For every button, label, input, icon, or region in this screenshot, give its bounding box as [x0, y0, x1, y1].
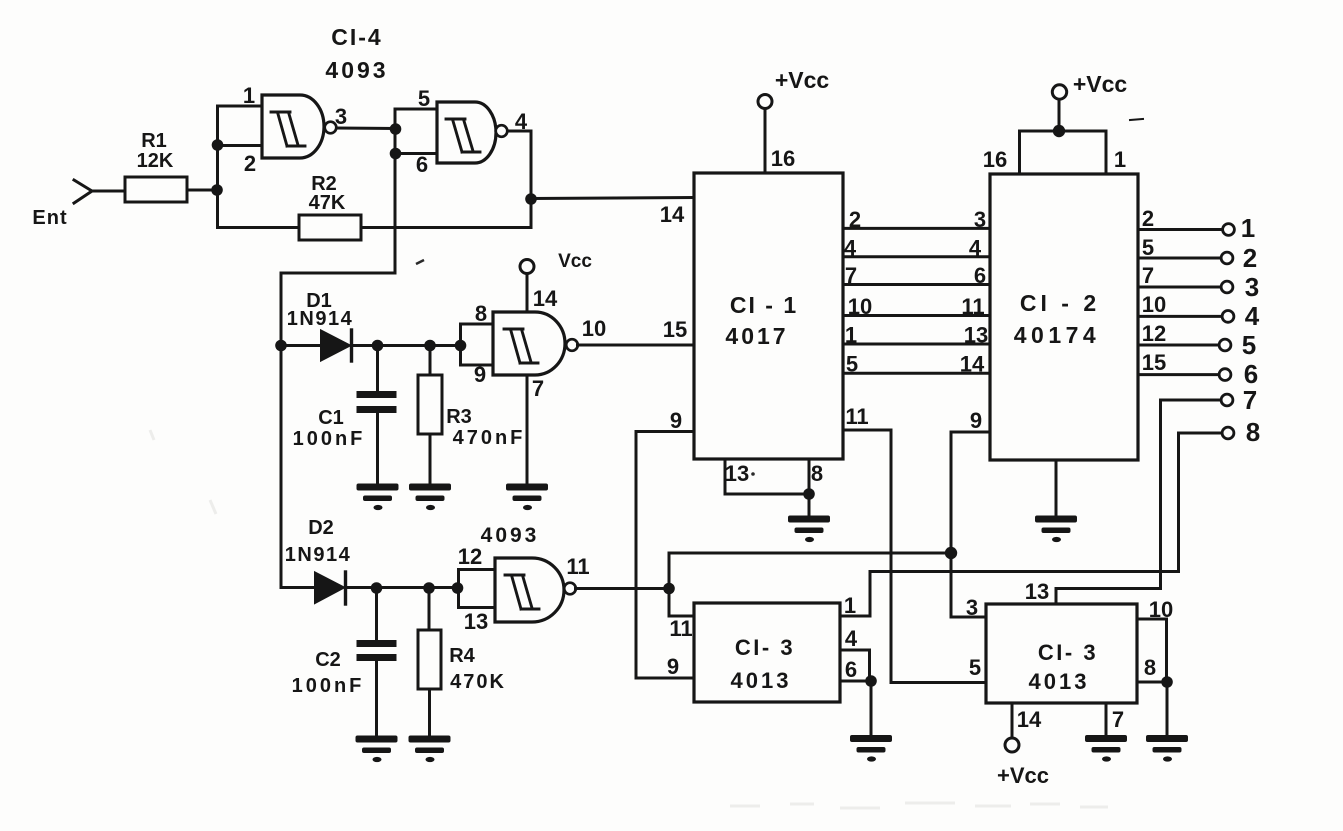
- node junction C1: [372, 340, 384, 352]
- svg-text:1: 1: [1114, 147, 1126, 172]
- svg-text:47K: 47K: [309, 192, 346, 214]
- svg-text:CI-4: CI-4: [331, 24, 382, 50]
- wire CI-2 pin 7 output: [1138, 286, 1221, 289]
- svg-text:4: 4: [845, 626, 858, 651]
- wire: [216, 106, 219, 228]
- wire: [394, 109, 397, 273]
- IC CI-2 40174: [990, 174, 1138, 460]
- wire gate2 output pin 4: [507, 130, 531, 133]
- svg-text:+Vcc: +Vcc: [997, 763, 1049, 788]
- node junction pin5: [390, 123, 402, 135]
- node junction C2: [371, 582, 383, 594]
- svg-text:10: 10: [1149, 597, 1173, 622]
- gate U1C 4093: [493, 312, 565, 375]
- svg-text:3: 3: [1245, 272, 1259, 302]
- svg-text:4: 4: [969, 236, 982, 261]
- svg-text:11: 11: [845, 404, 868, 429]
- svg-text:Ent: Ent: [32, 207, 67, 229]
- wire CI-1 pin 5 to CI-2 pin 14: [843, 372, 990, 375]
- capacitor C1: [376, 346, 379, 392]
- svg-text:3: 3: [974, 207, 986, 232]
- wire: [91, 190, 125, 193]
- wire CI-3a pin 4: [840, 650, 870, 681]
- svg-text:5: 5: [846, 352, 858, 377]
- wire D2 row: [281, 586, 315, 589]
- wire gate4 output pin 11: [576, 587, 670, 590]
- svg-text:2: 2: [849, 207, 861, 232]
- wire net A horizontal: [670, 552, 951, 555]
- wire CI-3a pin 1 to output 8: [840, 433, 1222, 616]
- svg-text:13: 13: [964, 323, 988, 348]
- svg-text:9: 9: [670, 408, 682, 433]
- node junction R3: [424, 340, 436, 352]
- terminal output 6: [1219, 369, 1231, 381]
- node junction gate3 input: [455, 340, 467, 352]
- wire CI-3b pin 8: [1137, 681, 1167, 684]
- wire CI-1 pin 7 to CI-2 pin 6: [843, 283, 990, 286]
- wire pin 8: [461, 323, 494, 326]
- svg-text:8: 8: [1144, 655, 1156, 680]
- wire pin 2: [218, 144, 263, 147]
- wire Vcc stem CI-2: [1058, 100, 1061, 132]
- wire CI-3a pin 6: [840, 680, 871, 683]
- terminal output 5: [1219, 339, 1231, 351]
- wire CI-2 pin 12 output: [1138, 344, 1219, 347]
- node junction pin 13 / pin 8: [803, 488, 815, 500]
- power +Vcc terminal CI-3b pin 14: [1005, 738, 1019, 752]
- resistor R2: [299, 215, 361, 240]
- svg-text:14: 14: [960, 352, 985, 377]
- svg-text:7: 7: [845, 263, 857, 288]
- svg-text:13: 13: [725, 461, 749, 486]
- svg-text:13: 13: [464, 609, 488, 634]
- svg-text:4093: 4093: [481, 524, 540, 547]
- svg-text:1: 1: [845, 323, 857, 348]
- svg-text:+Vcc: +Vcc: [775, 67, 830, 93]
- svg-text:CI - 1: CI - 1: [730, 292, 798, 318]
- wire CI-1 pin 11 to CI-3 pin 5: [843, 430, 986, 683]
- wire Vcc stem CI-1 pin 16: [764, 109, 767, 174]
- wire CI-3b pin 14 stem: [1011, 703, 1014, 738]
- wire Vcc stem: [526, 274, 529, 313]
- svg-text:6: 6: [974, 263, 986, 288]
- node junction Vcc CI-2: [1053, 125, 1065, 137]
- svg-text:1N914: 1N914: [287, 308, 353, 330]
- svg-text:5: 5: [1242, 330, 1256, 360]
- wire: [346, 586, 459, 589]
- power Vcc terminal gate3: [520, 260, 534, 274]
- ground under C1: [357, 484, 399, 511]
- svg-text:11: 11: [961, 294, 984, 319]
- power +Vcc terminal CI-1: [758, 95, 772, 109]
- svg-text:100nF: 100nF: [292, 675, 365, 697]
- IC CI-3 4013 second half: [986, 604, 1137, 703]
- terminal output 7: [1221, 394, 1233, 406]
- wire pin 9: [461, 364, 494, 367]
- wire CI-1 pin 9: [636, 432, 694, 679]
- svg-text:13: 13: [1025, 579, 1049, 604]
- wire CI-1 pin 13 bracket: [725, 459, 809, 494]
- svg-text:CI - 2: CI - 2: [1020, 290, 1100, 316]
- svg-text:1: 1: [1241, 213, 1255, 243]
- wire CI-2 pin 10 output: [1138, 315, 1222, 318]
- svg-text:5: 5: [418, 86, 430, 111]
- svg-text:16: 16: [771, 146, 795, 171]
- svg-text:3: 3: [335, 104, 347, 129]
- svg-text:7: 7: [1142, 263, 1154, 288]
- diode D2 1N914: [315, 573, 344, 604]
- svg-text:8: 8: [475, 301, 487, 326]
- svg-text:8: 8: [811, 461, 823, 486]
- ground CI-2 pin 8: [1035, 516, 1077, 543]
- wire: [352, 344, 461, 347]
- ground gate3 pin 7: [506, 484, 548, 511]
- svg-text:7: 7: [1243, 385, 1257, 415]
- svg-text:6: 6: [416, 152, 428, 177]
- stray dot after 13: [751, 472, 755, 476]
- ground CI-3b pin 8: [1146, 735, 1188, 762]
- ground CI-3b pin 7: [1085, 735, 1127, 762]
- svg-text:R3: R3: [446, 406, 472, 428]
- svg-text:11: 11: [566, 554, 589, 579]
- terminal output 4: [1222, 311, 1234, 323]
- svg-text:10: 10: [582, 316, 606, 341]
- svg-text:+Vcc: +Vcc: [1073, 71, 1128, 97]
- terminal output 2: [1221, 252, 1233, 264]
- node junction R1 output: [211, 184, 223, 196]
- terminal output 8: [1222, 427, 1234, 439]
- svg-text:14: 14: [1017, 707, 1042, 732]
- stray mark: [1130, 119, 1143, 120]
- svg-text:14: 14: [660, 202, 685, 227]
- svg-text:CI- 3: CI- 3: [1038, 640, 1098, 665]
- node junction R4: [423, 582, 435, 594]
- svg-text:4: 4: [515, 109, 528, 134]
- ground CI-3a pin 6: [850, 735, 892, 762]
- svg-text:40174: 40174: [1014, 322, 1100, 348]
- wire CI-1 pin 10 to CI-2 pin 11: [843, 314, 990, 317]
- svg-text:6: 6: [845, 657, 857, 682]
- svg-text:2: 2: [244, 151, 256, 176]
- IC CI-1 4017: [694, 173, 843, 459]
- svg-text:15: 15: [1142, 350, 1166, 375]
- svg-text:5: 5: [1142, 235, 1154, 260]
- capacitor C2: [375, 588, 378, 640]
- svg-text:1: 1: [844, 593, 856, 618]
- svg-text:9: 9: [970, 408, 982, 433]
- svg-text:4093: 4093: [325, 57, 388, 83]
- svg-text:R4: R4: [449, 645, 475, 667]
- node junction gate4 input: [452, 582, 464, 594]
- wire CI-2 pin 15 output: [1138, 373, 1219, 376]
- svg-text:8: 8: [1246, 417, 1260, 447]
- wire pin 6: [395, 152, 437, 155]
- scan smudge: [150, 430, 1108, 808]
- wire pin 12: [459, 568, 496, 571]
- ground under R4: [409, 736, 451, 763]
- wire CI-3b pin 13 to output 7: [1056, 400, 1221, 604]
- wire net A vertical to CI-3a pin 11: [669, 553, 694, 616]
- node junction pin6: [390, 148, 402, 160]
- wire CI-2 pin 8 stem: [1055, 460, 1058, 516]
- wire CI-3b pin 7 stem: [1105, 703, 1108, 736]
- gate U1B 4093: [437, 102, 496, 163]
- IC CI-3 4013 first half: [694, 603, 840, 702]
- wire CI-2 pin 2 output: [1138, 228, 1223, 231]
- svg-text:7: 7: [1112, 707, 1124, 732]
- node junction D1: [275, 340, 287, 352]
- svg-text:12: 12: [458, 544, 482, 569]
- svg-text:CI- 3: CI- 3: [735, 635, 795, 660]
- wire gate3 output pin 10 to CI-1 pin 15: [578, 344, 695, 347]
- wire CI-2 pin 9 to CI-3b pin 3: [951, 432, 990, 617]
- ground under C2: [356, 736, 398, 763]
- wire CI-1 pin 8 stem: [808, 459, 811, 516]
- wire pin 13: [459, 606, 496, 609]
- svg-text:Vcc: Vcc: [558, 251, 592, 272]
- wire CI-1 pin 2 to CI-2 pin 3: [843, 227, 990, 230]
- svg-text:11: 11: [669, 616, 692, 641]
- svg-text:1: 1: [243, 83, 255, 108]
- ground CI-1 pin 8: [788, 516, 830, 543]
- svg-text:4: 4: [1245, 301, 1260, 331]
- node junction to CI-1 pin 14: [525, 193, 537, 205]
- gate U1D 4093: [495, 558, 564, 622]
- wire CI-1 pin 4 to CI-2 pin 4: [843, 255, 990, 258]
- stray pen tick: [416, 260, 424, 264]
- wire pin 7 stem: [526, 375, 529, 484]
- wire: [187, 189, 217, 192]
- wire to CI-1 pin 14: [531, 198, 694, 199]
- node junction pin2: [212, 139, 224, 151]
- svg-text:1N914: 1N914: [285, 544, 351, 566]
- resistor R1: [125, 177, 187, 202]
- resistor R3: [429, 346, 432, 376]
- node junction pins 4-6: [865, 675, 877, 687]
- wire vertical to diode rows: [281, 272, 395, 275]
- wire pin 5: [395, 108, 437, 111]
- ground under R3: [409, 484, 451, 511]
- svg-text:C2: C2: [315, 649, 341, 671]
- svg-text:4: 4: [844, 236, 857, 261]
- wire: [281, 344, 321, 347]
- svg-text:9: 9: [474, 362, 486, 387]
- wire: [280, 273, 283, 587]
- wire pin 1: [218, 105, 263, 108]
- svg-text:12K: 12K: [137, 150, 174, 172]
- svg-text:470K: 470K: [450, 671, 506, 693]
- svg-text:14: 14: [533, 286, 558, 311]
- wire bottom feedback: [218, 226, 532, 229]
- wire to ground: [870, 681, 873, 736]
- svg-text:470nF: 470nF: [453, 427, 526, 449]
- svg-text:7: 7: [532, 376, 544, 401]
- svg-text:D2: D2: [308, 517, 334, 539]
- resistor R4: [428, 588, 431, 630]
- svg-text:R1: R1: [141, 130, 167, 152]
- svg-text:4013: 4013: [1029, 669, 1090, 694]
- gate U1A 4093: [262, 95, 324, 158]
- wire CI-1 pin 1 to CI-2 pin 13: [843, 343, 990, 346]
- wire CI-2 Vcc bracket pins 16 and 1: [1020, 131, 1107, 173]
- svg-text:4013: 4013: [731, 668, 792, 693]
- node Ent input arrow: [74, 180, 92, 203]
- svg-text:100nF: 100nF: [293, 428, 366, 450]
- svg-text:15: 15: [663, 317, 687, 342]
- svg-text:4017: 4017: [725, 323, 788, 349]
- wire to ground: [1166, 682, 1169, 736]
- wire output gate1 pin 3: [336, 127, 396, 131]
- svg-text:2: 2: [1142, 206, 1154, 231]
- svg-text:10: 10: [1142, 292, 1166, 317]
- svg-text:2: 2: [1243, 243, 1257, 273]
- svg-text:16: 16: [983, 147, 1007, 172]
- power +Vcc terminal CI-2: [1052, 85, 1066, 99]
- node junction gate4 output: [663, 583, 675, 595]
- wire CI-2 pin 5 output: [1138, 257, 1221, 260]
- terminal output 3: [1221, 281, 1233, 293]
- wire: [530, 131, 533, 228]
- svg-text:C1: C1: [318, 407, 344, 429]
- terminal output 1: [1223, 224, 1235, 236]
- svg-text:10: 10: [848, 294, 872, 319]
- node junction line A: [945, 547, 957, 559]
- wire CI-3b pin 10: [1137, 619, 1167, 682]
- svg-text:3: 3: [966, 595, 978, 620]
- wire input bracket gate4: [457, 570, 460, 608]
- node junction pins 10-8: [1161, 676, 1173, 688]
- svg-text:9: 9: [667, 654, 679, 679]
- svg-text:12: 12: [1142, 321, 1166, 346]
- diode D1 1N914: [321, 331, 350, 361]
- svg-text:5: 5: [969, 655, 981, 680]
- wire input bracket gate3: [459, 324, 462, 365]
